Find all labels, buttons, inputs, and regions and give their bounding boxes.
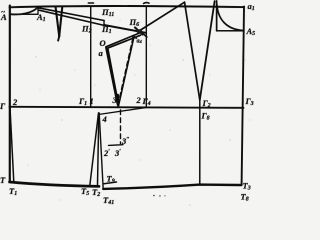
- back shoulder lower line: [39, 10, 104, 25]
- svg-text:1: 1: [90, 96, 94, 106]
- front neck curve: [217, 4, 244, 31]
- waist line right: [103, 185, 241, 189]
- back neck curve: [10, 7, 38, 14]
- back neck tick A1: [37, 6, 39, 14]
- svg-text:Т: Т: [0, 175, 6, 185]
- front neck horizontal to A5: [217, 30, 244, 32]
- vertical G2-G8: [199, 100, 201, 184]
- line P1 to knot: [104, 25, 146, 33]
- knot line to a: [107, 35, 141, 48]
- chest line G: [9, 107, 243, 108]
- knot short stroke right: [135, 28, 147, 38]
- knot line to O: [106, 33, 140, 47]
- front waist dart bottom: [108, 144, 123, 147]
- svg-text:О: О: [100, 38, 106, 48]
- dart tip hook: [58, 36, 59, 40]
- dart left leg from O double: [106, 47, 118, 104]
- center back seam G to T1: [10, 107, 14, 181]
- svg-text:а4: а4: [137, 39, 143, 45]
- side seam front: 4 to T2: [97, 113, 98, 187]
- front neck vertical: [216, 1, 218, 31]
- bust dart tip heavy: [117, 95, 120, 106]
- scan noise specks: [27, 19, 250, 205]
- tick above G1: [88, 2, 93, 4]
- svg-text:~: ~: [1, 8, 5, 16]
- dart left leg from a double: [108, 49, 119, 105]
- svg-text:2: 2: [12, 97, 18, 107]
- svg-text:4: 4: [101, 114, 106, 124]
- third line 4 to T9 area: [99, 113, 103, 189]
- right vertical a1-T3: [242, 7, 244, 186]
- waist line left: [9, 182, 99, 186]
- left vertical A-T: [9, 6, 11, 182]
- top line: [10, 6, 245, 7]
- svg-text:2: 2: [136, 95, 142, 105]
- svg-text:Г: Г: [0, 101, 6, 111]
- front waist dart center dashed: [119, 110, 121, 143]
- labels a4 near knot: [132, 34, 143, 44]
- dart right leg dashed: [119, 38, 133, 100]
- T9 segment: [104, 182, 117, 184]
- svg-text:3: 3: [112, 95, 118, 105]
- shoulder step: [103, 20, 105, 25]
- vertical G1: [90, 6, 92, 107]
- back neck bottom line: [10, 13, 38, 15]
- side seam back: 4 to T5: [90, 113, 99, 186]
- back shoulder dart leg left: [56, 7, 60, 37]
- back shoulder upper line: [38, 8, 104, 21]
- line knot to peak: [139, 2, 185, 31]
- dart right leg solid: [119, 36, 134, 104]
- back shoulder dart leg right: [59, 6, 62, 36]
- dots below waist: [153, 195, 165, 197]
- small marks near knot (a4 etc): [136, 29, 142, 33]
- line front shoulder to G2: [200, 1, 215, 100]
- vertical G4: [145, 7, 147, 107]
- line 4 to G4 bottom: [98, 108, 145, 115]
- line peak to G2 (back armhole side): [185, 2, 200, 100]
- svg-text:а: а: [99, 48, 104, 58]
- tick above G4: [144, 2, 150, 5]
